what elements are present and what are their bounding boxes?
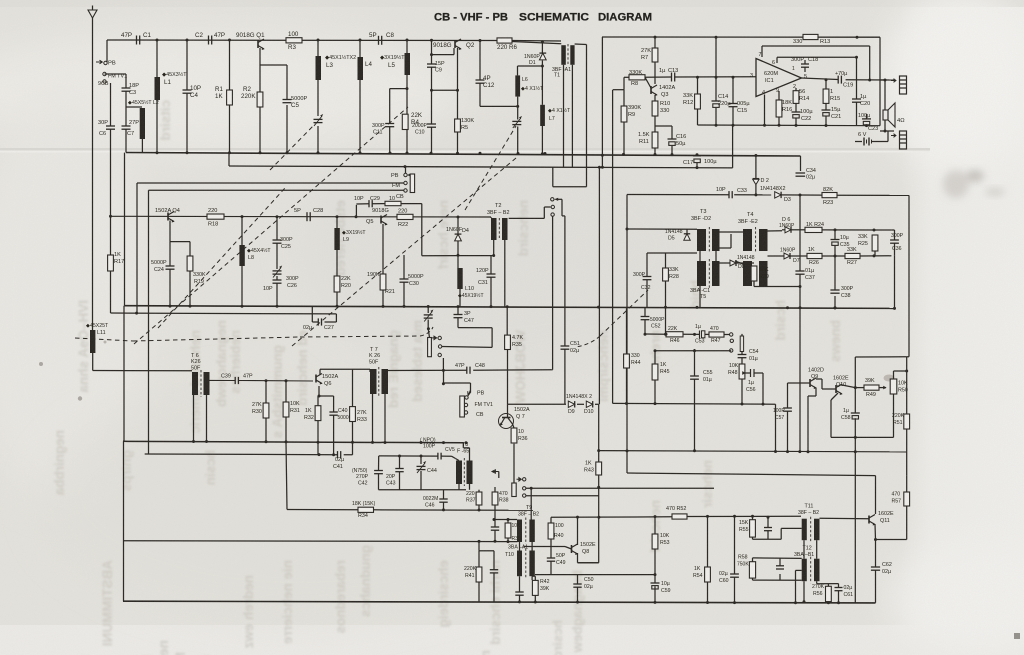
label C43 [386,474,396,487]
switch S6 [512,483,516,497]
wire R45 branch [654,351,656,404]
label R14 [799,89,809,102]
jack J1 [900,76,907,94]
resistor R48 [739,364,745,379]
capacitor C16 [668,138,677,140]
label R30 [252,402,262,415]
label R36 [518,429,528,442]
wire L11 to T6 [93,353,192,371]
capacitor C65 [776,565,784,567]
label R34 [352,501,376,519]
wire TP link [741,334,743,336]
wire C42 C43 T8 bottom [379,489,467,491]
wire C23 tap [866,114,868,119]
wire C12 to L6 tap [480,105,518,107]
junction dots bottom row [478,486,841,605]
dashed line horizontal [75,338,133,341]
label R15 [830,89,840,102]
label C31 [476,268,489,286]
label R53 [660,533,670,546]
label L10 [458,286,484,299]
wire C31 branch [490,256,492,307]
wire R55 links [753,516,802,539]
label T6 [191,353,201,372]
inductor L6 [515,75,520,96]
label R43 [584,461,594,474]
label R7 [641,48,651,61]
dashed diagonal B [158,188,285,328]
label T4 [738,212,758,225]
label R24 [806,222,824,228]
wire Q9 emitter [808,388,816,452]
wire T9 feed [530,488,532,519]
wire S3 wiper [558,199,565,346]
label C3 [129,83,139,96]
wire R12 taps [697,77,699,125]
wire T11 to Q11 base [820,517,870,520]
label T1 [552,67,571,79]
junction dots r46row [625,333,765,406]
inductor L8 [239,245,244,266]
capacitor C22 [792,111,801,113]
wire S2 lines [137,183,404,190]
wire pin7 [762,46,870,80]
capacitor C13 [671,73,673,82]
capacitor C7 [122,125,131,127]
wire Q4 emitter [170,221,190,307]
resistor R44 [624,354,630,368]
resistor R56 [826,586,832,601]
wire Q1 emitter [260,48,287,153]
capacitor C34 [796,172,806,174]
label C2 [195,32,225,39]
wire C44 branch [420,456,422,490]
resistor R54 [705,567,711,582]
wire Q3 emitter [654,95,656,132]
label R33 [357,410,367,423]
jack J2 [900,131,907,149]
junction dot T9 feed [530,449,629,489]
wire R46 R47 row [645,333,730,336]
label R48 [728,363,739,376]
wire rail to bus2 [732,125,734,168]
switch S1a PB/FM/CB [96,60,102,64]
resistor R10 [652,101,658,116]
wire T4 top right [768,230,783,232]
wire C33 left leg [626,195,628,474]
wire C11 branch [390,89,407,153]
diode D2 [753,178,759,180]
resistor R49 [864,385,879,390]
label C27 [303,325,334,331]
transformer T5 [697,261,706,286]
capacitor C48 [466,367,468,374]
wire R35 feed [506,307,508,335]
diode D1 [539,53,546,60]
wire Q8 emitter [578,553,599,563]
label C54 [749,349,759,362]
wire C30 branch [403,255,405,306]
label C12 [483,75,495,89]
wire R30 branch [265,381,267,442]
wire bus1 corner to C34 [800,156,802,171]
diode D6 [785,227,791,233]
resistor R38 [492,492,498,505]
wire C46 branch [443,490,445,510]
resistor R45 [652,364,658,380]
wire C4 branch [186,40,188,153]
junction dots y450 [597,449,857,453]
wire left frame [123,306,126,602]
wire T9 top link [494,519,517,521]
wire L4 branch [359,40,361,153]
label R37 [466,491,476,504]
label R46 [668,326,680,344]
wire C36 taps [891,230,894,308]
wire C16 link [655,126,672,155]
wire R34 line [287,509,533,512]
label C6 [98,120,108,137]
transformer T10 [517,551,522,577]
label C34 [806,168,816,181]
wire L3 branch [317,40,319,153]
resistor R15 [823,89,829,103]
transformer T3 [697,229,706,251]
label S5 [475,391,493,419]
label C49 [556,553,566,566]
wire L9 branch [336,217,338,306]
wire C37 taps [799,195,801,452]
label C5 [291,96,307,109]
resistor R1 [227,90,233,105]
capacitor C15 [729,103,738,105]
label C42 [352,468,369,487]
label R47 [710,326,721,344]
label C56 [746,380,756,393]
wire R50 top [894,371,907,379]
resistor R34 [358,507,374,512]
label T2 [487,203,509,216]
capacitor C55 [690,375,699,377]
label T7b [369,347,380,366]
label R57 [892,492,902,505]
resistor R55 [750,520,756,537]
resistor R17 [108,255,114,271]
resistor R43 [596,462,602,475]
label C21 [831,107,841,120]
wire T11 bottom pins [804,540,817,559]
resistor R36 [511,428,517,443]
label R19 [193,272,206,285]
wire y350 row [656,350,731,352]
switch S2 [404,173,407,176]
wire Q8 base [551,547,572,550]
junction dots top bus [156,39,482,92]
trimmer C44 [417,465,426,467]
wire osc ground bus [125,306,895,309]
label C30 [408,274,424,287]
wire speaker bottom [880,120,894,131]
capacitor C35 [831,239,840,241]
label C41 [333,457,344,470]
label R49 [865,378,876,398]
wire amp supply drop [601,37,603,168]
capacitor C61 [835,587,843,589]
label R18 [208,208,218,228]
label R50 [898,381,908,394]
wire T6 secondary out [210,379,314,382]
label R10 [660,101,670,114]
antenna [88,10,97,18]
wire R28 taps [647,253,697,307]
label D8 [737,255,755,270]
wire C27 loop [312,306,336,322]
label R44 [631,353,641,366]
wire PB to top bus [106,40,108,62]
transformer T1 [561,45,566,65]
wire C66 branch [493,573,495,602]
wire R41 branch [478,541,480,601]
label L1 [162,71,187,86]
label C11 [372,123,385,136]
resistor R39 [505,523,511,538]
label R41 [464,566,477,579]
wire Q3 base [645,77,651,88]
wire S3 top feed [553,167,587,186]
capacitor C47 [454,314,463,316]
transistor Q2 [454,40,456,48]
label R42 [540,579,550,592]
resistor R19 [187,256,193,271]
resistor R8 [629,75,645,80]
capacitor C64 [764,527,772,529]
wire Q7 taps [508,404,515,483]
wire T3 feed [627,228,697,230]
junction dots T1 [516,40,544,155]
wire R1 branch [229,40,231,153]
label L7 [548,107,571,122]
wire C29 loop [356,204,493,256]
resistor R37 [476,492,482,505]
wire R7 to Q3 [654,62,656,84]
wire T7 out C48 [388,369,553,372]
label C35 [840,235,850,248]
wire C15 taps [732,77,734,125]
label L11 [86,323,109,336]
wire Q6 collector to T7 [320,369,370,375]
wire y473 ground link [627,473,876,514]
label C50 [584,577,594,590]
capacitor C49 [547,557,555,559]
dashed diagonal E [600,290,648,336]
label C58 [841,408,851,421]
wire C32 taps [646,253,648,307]
junction dots amp [654,36,887,133]
switch S4a [428,338,432,357]
resistor R11 [652,132,658,148]
wire T12 left pin [796,570,805,602]
capacitor C39 [234,377,236,384]
wire C43 branch [399,456,401,490]
capacitor C43 [395,468,403,470]
diode D4 [455,234,462,241]
label L4 [365,61,372,68]
capacitor C37 [795,270,804,272]
wire CB branch C6 R17 [110,83,112,313]
trimmer near L6 [512,120,521,122]
wire Q11 emitter [874,524,877,603]
label Q4 [155,208,180,214]
label C4 [190,85,201,99]
capacitor C30 [400,278,409,280]
label R11 [638,132,650,145]
wire C33 net [627,194,909,197]
junction dots IF bus [192,395,468,445]
label R16 [782,100,792,113]
resistor R13 [803,34,818,39]
label C51 [570,341,580,354]
capacitor C54 [738,354,747,356]
wire C13 to pin3 [675,76,756,78]
switch S3 [551,198,554,201]
resistor R41 [476,567,482,582]
label C55 [703,370,713,383]
wire x599 vertical [578,168,600,563]
label C38 [841,286,854,299]
junction dots lineB [135,312,138,315]
wire R52 line [551,516,801,517]
diode D8 [730,260,736,266]
resistor R23 [822,193,837,198]
label R9 [628,105,641,118]
wire R23 to x908 [908,195,910,356]
wire C51 leg [564,349,566,404]
wire R25 bottom [874,251,876,256]
label C15 [737,101,750,114]
label C19 [835,71,853,89]
wire bar to C54 [741,352,743,355]
label C61 [844,585,854,598]
resistor R25 [872,235,878,251]
label Q6 [322,374,338,387]
capacitor C2 [208,36,210,45]
label C46 [423,496,438,509]
label C10 [412,123,428,136]
capacitor C18 [801,63,809,65]
capacitor C23 [862,118,871,120]
trimmer C45t [424,314,433,316]
resistor R35 [505,335,511,349]
capacitor C17 [693,155,701,157]
wire amp bottom rail [698,124,881,127]
wiper arrow R48 [742,371,746,375]
label R20 [341,276,351,289]
label L6 [521,77,544,92]
wire R42 branch [532,576,535,602]
wire R29 bottom [753,281,755,287]
label D5 [665,229,683,242]
resistor R33 [350,407,356,422]
wire C55 branch [694,349,696,451]
resistor R58 [749,562,755,578]
wire IF bus into T8 [463,443,469,448]
wire bus2 [229,166,733,168]
wire output [802,78,895,80]
wire C5 branch [286,65,288,153]
label C18 [791,57,818,63]
capacitor C62 [871,566,880,568]
dashed diagonal D [465,126,516,210]
inductor L11 [90,330,95,353]
wire line456 [379,456,459,461]
junction dots line454 [318,453,423,457]
label R25 [858,234,868,247]
capacitor C33 [728,191,730,198]
resistor R9 [621,106,627,122]
label R3 [288,31,299,51]
capacitor C58 [851,412,860,414]
label Q9 [808,368,824,381]
wire battery link [872,131,889,142]
wire pin4 [764,95,766,126]
capacitor C10 [427,123,436,125]
resistor R42 [532,580,538,595]
wire S3 bottom to C48 [552,216,554,369]
transistor Q8 [571,545,573,553]
wire C57 leg [787,411,789,451]
inductor L7 [540,105,545,126]
label Q8 [580,542,596,555]
label T12 [794,546,814,559]
label T5 [690,288,710,300]
capacitor C57 [783,407,792,409]
capacitor C3 [122,87,131,89]
wire Q10 collector [842,385,864,388]
wire y450 bus [599,451,907,452]
wire bottom rail [123,601,876,603]
capacitor C66 [490,569,498,571]
capacitor C21 [822,109,831,111]
arrow into R50 [883,386,886,390]
wire T5 right to C37 [754,286,800,288]
op-amp IC1 [756,59,802,97]
resistor R2 [257,92,263,107]
wire R21 branch [382,224,384,306]
capacitor C11 [385,123,394,125]
transistor Q10 [835,385,837,393]
wire Q9 base [788,383,811,408]
wire R39 taps [507,520,509,542]
capacitor C20 [852,98,861,100]
junction dots bus1 [156,151,758,157]
junction dots mid bus [109,215,495,257]
label R2 [241,86,256,100]
slider bar R48t [740,336,743,352]
label R31 [290,401,300,414]
wire D2 vertical [755,156,757,195]
wire antenna to L11 [92,62,94,330]
resistor R22b 10ohm [385,201,401,205]
label R13 [793,39,830,45]
label C22 [800,109,813,122]
capacitor C1 [136,36,138,45]
wire S4a out [442,328,492,371]
wire D4 branch [458,217,460,307]
wire R49 to R50 [879,387,886,389]
wire C40 link [334,396,353,455]
label Q11 [878,511,894,524]
label R52 [666,506,686,512]
